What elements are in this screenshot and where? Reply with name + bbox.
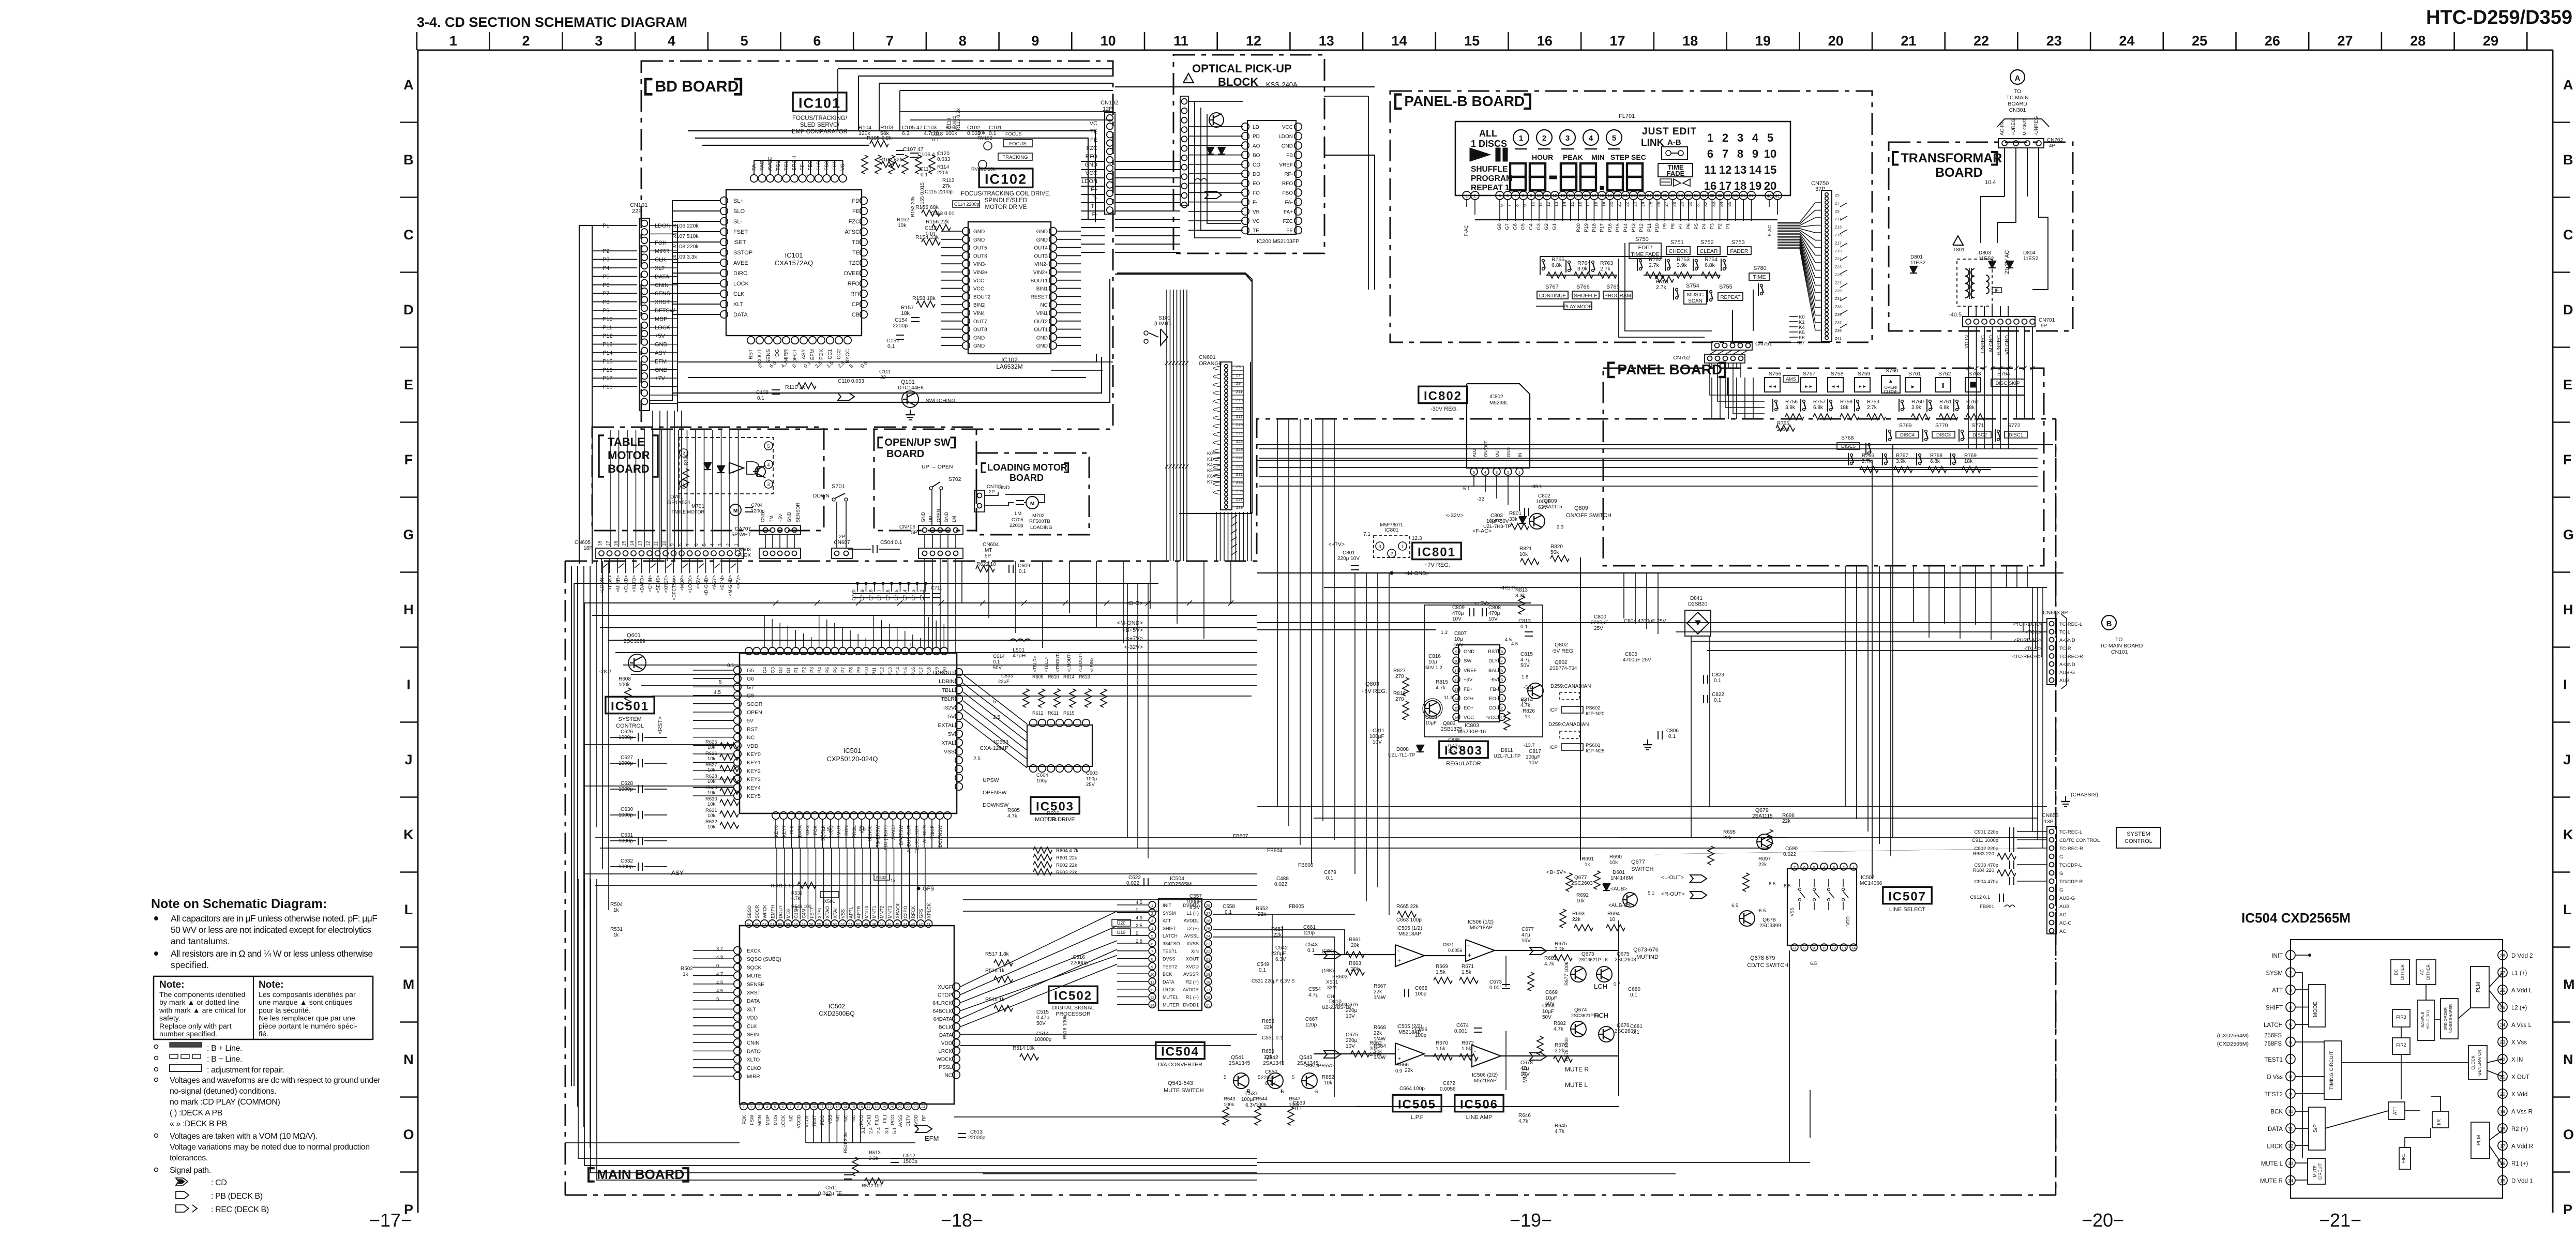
svg-text:2.4: 2.4 bbox=[868, 1127, 873, 1134]
svg-text:8: 8 bbox=[797, 1106, 800, 1109]
svg-text:G6: G6 bbox=[747, 676, 754, 682]
svg-text:CN301: CN301 bbox=[2009, 107, 2026, 113]
svg-text:KEY6: KEY6 bbox=[774, 825, 779, 837]
capacitor row C712-C720 bbox=[853, 594, 862, 598]
svg-text:C674: C674 bbox=[1456, 1023, 1469, 1029]
svg-text:10: 10 bbox=[1454, 659, 1458, 663]
svg-text:AUBUS-OUT: AUBUS-OUT bbox=[907, 825, 912, 853]
svg-text:GTOP: GTOP bbox=[938, 993, 952, 999]
svg-text:C513: C513 bbox=[970, 1129, 983, 1135]
svg-text:C811: C811 bbox=[1373, 728, 1385, 734]
svg-text:GND: GND bbox=[973, 229, 985, 235]
svg-text:45: 45 bbox=[895, 923, 899, 927]
svg-text:EXCK: EXCK bbox=[747, 948, 761, 954]
svg-text:FSET: FSET bbox=[733, 229, 748, 235]
svg-text:3: 3 bbox=[767, 482, 770, 487]
optical block top inner rail bbox=[1188, 101, 1243, 102]
svg-text:<D-G>: <D-G> bbox=[1126, 600, 1143, 607]
transformer T801 windings bbox=[1957, 259, 1992, 306]
svg-text:5V: 5V bbox=[948, 714, 955, 720]
svg-text:3RD ORDER: 3RD ORDER bbox=[2443, 1007, 2448, 1030]
svg-text:P2: P2 bbox=[1718, 223, 1723, 230]
svg-text:10k: 10k bbox=[707, 790, 716, 796]
vertical drops under CN604 bbox=[924, 579, 925, 653]
IC503 label box bbox=[1031, 797, 1079, 813]
svg-text:S751: S751 bbox=[1670, 239, 1684, 246]
svg-text:Replace only with part: Replace only with part bbox=[159, 1022, 232, 1031]
D701 transistor bbox=[755, 466, 765, 477]
svg-text:49: 49 bbox=[864, 923, 868, 927]
svg-text:DISC3: DISC3 bbox=[1936, 432, 1951, 438]
svg-text:Q543: Q543 bbox=[1299, 1054, 1313, 1061]
svg-text:CXD2500BQ: CXD2500BQ bbox=[819, 1010, 854, 1017]
svg-text:0.9: 0.9 bbox=[1395, 1068, 1402, 1074]
svg-text:22μF: 22μF bbox=[998, 679, 1010, 685]
svg-text:C666: C666 bbox=[1415, 1027, 1427, 1033]
svg-text:8: 8 bbox=[1794, 946, 1796, 950]
svg-text:15: 15 bbox=[1454, 706, 1458, 711]
R503 1k bbox=[874, 874, 890, 880]
svg-text:FA+: FA+ bbox=[1284, 209, 1293, 215]
svg-text:59: 59 bbox=[786, 923, 790, 927]
svg-text:CLEAR: CLEAR bbox=[1699, 248, 1718, 254]
svg-text:I: I bbox=[406, 677, 411, 692]
svg-text:DATA: DATA bbox=[2268, 1126, 2283, 1132]
svg-text:<-32V>: <-32V> bbox=[1446, 512, 1464, 519]
svg-text:IC801: IC801 bbox=[1418, 546, 1456, 560]
svg-text:C822: C822 bbox=[1712, 692, 1724, 698]
svg-text:270: 270 bbox=[1395, 674, 1404, 679]
svg-text:Z33: Z33 bbox=[1835, 305, 1842, 309]
svg-text:2.7k: 2.7k bbox=[1649, 262, 1660, 268]
svg-text:DTC144EK: DTC144EK bbox=[898, 385, 924, 391]
wires CN702 down to transformer bbox=[2004, 148, 2005, 197]
svg-text:VREF: VREF bbox=[1464, 668, 1477, 673]
svg-text:Q678: Q678 bbox=[1762, 917, 1776, 923]
IC504 left pin col 1-14 bbox=[1149, 901, 1156, 909]
horizontal rails between IC501 area and audio bbox=[584, 744, 734, 745]
panel wires to CN752 bbox=[1727, 377, 1765, 395]
D701 pins circled 2 1 bbox=[680, 449, 688, 457]
svg-text:22: 22 bbox=[1631, 193, 1636, 198]
svg-text:LINE AMP: LINE AMP bbox=[1466, 1114, 1493, 1121]
svg-text:5: 5 bbox=[1501, 678, 1503, 683]
svg-text:IC803: IC803 bbox=[1465, 722, 1479, 729]
svg-text:<RST>: <RST> bbox=[1500, 585, 1517, 591]
svg-text:AVEE: AVEE bbox=[733, 260, 748, 266]
svg-text:AC-C: AC-C bbox=[2059, 920, 2071, 926]
svg-text:25: 25 bbox=[1206, 926, 1210, 931]
svg-text:22: 22 bbox=[1206, 949, 1210, 954]
svg-text:IC502: IC502 bbox=[1054, 989, 1092, 1003]
svg-text:M5293L: M5293L bbox=[1489, 400, 1509, 406]
svg-text:13: 13 bbox=[638, 541, 643, 546]
svg-text:CO: CO bbox=[1253, 162, 1260, 168]
svg-text:CIRCUIT: CIRCUIT bbox=[2318, 1163, 2323, 1180]
IC803 left pins bbox=[1453, 647, 1460, 655]
svg-text:TD: TD bbox=[852, 239, 860, 246]
svg-text:N: N bbox=[403, 1052, 414, 1067]
svg-text:TC MAIN: TC MAIN bbox=[2006, 95, 2028, 101]
svg-text:LRCK: LRCK bbox=[2267, 1144, 2283, 1150]
svg-text:FB901: FB901 bbox=[1980, 904, 1994, 910]
svg-text:X IN: X IN bbox=[2511, 1057, 2523, 1063]
svg-text:AVDDR: AVDDR bbox=[1183, 987, 1199, 992]
IC503 resistor network R609-R615 bbox=[1023, 689, 1029, 707]
svg-text:FO: FO bbox=[1253, 190, 1260, 196]
svg-text:VD-GND: VD-GND bbox=[2005, 335, 2010, 355]
svg-text:AC: AC bbox=[2420, 969, 2424, 975]
svg-text:S759: S759 bbox=[1858, 371, 1871, 377]
svg-text:TEST1: TEST1 bbox=[2264, 1057, 2283, 1063]
svg-text:6: 6 bbox=[1151, 942, 1153, 946]
svg-text:Q809: Q809 bbox=[1544, 498, 1557, 504]
frame left vertical line bbox=[417, 50, 419, 1213]
svg-text:P5: P5 bbox=[825, 667, 830, 673]
svg-text:10μF: 10μF bbox=[1545, 995, 1557, 1001]
svg-text:Les composants identifiés par: Les composants identifiés par bbox=[259, 991, 356, 999]
svg-text:S757: S757 bbox=[1803, 371, 1816, 377]
svg-text:P19: P19 bbox=[1584, 223, 1589, 232]
svg-text:11: 11 bbox=[1454, 668, 1458, 673]
svg-text:FB605: FB605 bbox=[1289, 904, 1304, 910]
svg-text:P17: P17 bbox=[1600, 223, 1605, 232]
svg-text:PLAY MODE: PLAY MODE bbox=[1564, 304, 1592, 310]
svg-text:6: 6 bbox=[1501, 668, 1503, 673]
svg-text:AVSSR: AVSSR bbox=[1183, 972, 1199, 977]
svg-text:2.2k: 2.2k bbox=[1555, 1048, 1565, 1054]
wire bus from CN101 down-left bbox=[592, 225, 593, 564]
svg-text:33: 33 bbox=[1718, 193, 1722, 198]
svg-text:29: 29 bbox=[2483, 33, 2498, 49]
IC101 left pin column bbox=[720, 197, 728, 204]
IC803 label box bbox=[1439, 741, 1488, 758]
main horizontal bus under connectors bbox=[574, 583, 1158, 584]
svg-text:SLO: SLO bbox=[733, 208, 745, 215]
wires from IC501 right to IC503 bbox=[963, 674, 1027, 724]
vertical drops from rails to IC802 area bbox=[1473, 475, 1474, 486]
svg-text:Z31: Z31 bbox=[1236, 472, 1243, 477]
svg-text:TBLR: TBLR bbox=[941, 696, 955, 702]
svg-text:VIN1: VIN1 bbox=[1036, 311, 1048, 316]
svg-text:LDBOUT: LDBOUT bbox=[932, 670, 955, 676]
extra central rails bbox=[623, 664, 1257, 666]
svg-text:0.033: 0.033 bbox=[937, 157, 950, 162]
svg-text:6: 6 bbox=[1507, 193, 1509, 198]
svg-text:R693: R693 bbox=[1572, 911, 1585, 917]
svg-text:►►: ►► bbox=[1804, 384, 1813, 389]
svg-text:SCOR: SCOR bbox=[747, 701, 763, 707]
svg-text:VSS: VSS bbox=[1789, 908, 1795, 916]
svg-text:R756: R756 bbox=[1785, 399, 1798, 405]
svg-text:DLY: DLY bbox=[1488, 658, 1498, 664]
svg-text:ICP: ICP bbox=[1549, 707, 1558, 713]
svg-text:4: 4 bbox=[1484, 470, 1486, 475]
svg-text:RCH: RCH bbox=[1594, 1011, 1608, 1019]
svg-text:C912 0.1: C912 0.1 bbox=[1970, 895, 1990, 900]
svg-text:GND: GND bbox=[1036, 335, 1048, 341]
wire rails BD right to CN102 bbox=[1081, 161, 1105, 162]
svg-text:OPTICAL PICK-UP: OPTICAL PICK-UP bbox=[1192, 62, 1292, 75]
svg-text:57: 57 bbox=[802, 923, 806, 927]
connector CN705 2P bbox=[974, 490, 985, 512]
IC501 body CXP50120-024Q bbox=[740, 653, 957, 813]
svg-text:►: ► bbox=[1910, 384, 1916, 390]
svg-text:SYSTEM: SYSTEM bbox=[618, 716, 641, 722]
svg-text:53: 53 bbox=[833, 923, 837, 927]
ground symbol near Q101 bbox=[910, 410, 911, 415]
resistor cluster above IC101 (R101-R110,C101-C108) bbox=[862, 155, 868, 174]
svg-text:5: 5 bbox=[1473, 470, 1475, 475]
svg-text:BOARD: BOARD bbox=[2008, 101, 2027, 107]
svg-text:S760: S760 bbox=[1886, 368, 1899, 374]
svg-text:3.7: 3.7 bbox=[716, 946, 723, 952]
svg-text:30: 30 bbox=[1694, 193, 1699, 198]
svg-text:1k: 1k bbox=[1525, 714, 1531, 720]
svg-text:64: 64 bbox=[747, 923, 751, 927]
board label TRANSFORMAR BOARD bbox=[1893, 152, 1899, 165]
svg-text:20: 20 bbox=[1764, 179, 1776, 192]
IC200 left pins bbox=[1242, 123, 1249, 130]
R110 1k resistor bbox=[797, 383, 816, 389]
svg-text:BAL: BAL bbox=[1488, 668, 1498, 673]
svg-text:10k: 10k bbox=[1519, 552, 1528, 557]
svg-text:4.7k: 4.7k bbox=[1518, 1119, 1529, 1124]
svg-text:ISET: ISET bbox=[733, 239, 746, 246]
svg-text:JUST EDIT: JUST EDIT bbox=[1642, 126, 1697, 137]
svg-text:DATA: DATA bbox=[1163, 979, 1174, 985]
svg-text:D259:CANADIAN: D259:CANADIAN bbox=[1548, 722, 1589, 728]
svg-text:<M-GND>: <M-GND> bbox=[728, 575, 733, 596]
svg-text:4: 4 bbox=[1151, 926, 1153, 931]
svg-text:C117: C117 bbox=[920, 167, 932, 172]
svg-text:F-AC: F-AC bbox=[1767, 225, 1773, 236]
svg-text:61: 61 bbox=[770, 923, 774, 927]
svg-text:4.7μ: 4.7μ bbox=[1520, 657, 1531, 663]
svg-text:<M-GND>: <M-GND> bbox=[1117, 620, 1143, 626]
svg-text:20: 20 bbox=[1206, 964, 1210, 969]
svg-text:22k: 22k bbox=[1405, 1068, 1413, 1074]
svg-text:Z19: Z19 bbox=[1835, 249, 1842, 253]
svg-text:FIR3: FIR3 bbox=[2396, 1015, 2406, 1020]
svg-text:19: 19 bbox=[2500, 1109, 2506, 1115]
svg-text:FB-: FB- bbox=[1490, 687, 1498, 692]
svg-text:( ) :DECK A PB: ( ) :DECK A PB bbox=[170, 1109, 222, 1117]
svg-text:REGULATOR: REGULATOR bbox=[1446, 761, 1481, 767]
board outline TRANSFORMAR BOARD bbox=[1889, 142, 2073, 331]
svg-text:R504: R504 bbox=[610, 902, 623, 908]
svg-text:RFO: RFO bbox=[848, 281, 860, 287]
CXD2565M ATT block bbox=[2388, 1102, 2405, 1120]
svg-text:D841: D841 bbox=[1690, 596, 1703, 601]
svg-text:26: 26 bbox=[1663, 193, 1667, 198]
wires loading motor bbox=[985, 492, 998, 495]
svg-text:ASY: ASY bbox=[671, 869, 684, 877]
connector CN607 2P bbox=[832, 548, 852, 558]
svg-text:10k: 10k bbox=[707, 779, 716, 784]
svg-text:0.022: 0.022 bbox=[1783, 852, 1796, 857]
svg-text:PROGRAM: PROGRAM bbox=[1604, 293, 1631, 299]
svg-text:‖: ‖ bbox=[1941, 382, 1945, 389]
svg-text:SLED SERVO/: SLED SERVO/ bbox=[800, 122, 840, 128]
svg-text:18: 18 bbox=[597, 541, 602, 546]
svg-text:R760: R760 bbox=[1911, 399, 1924, 405]
svg-text:FA-: FA- bbox=[1285, 200, 1293, 206]
svg-text:: PB (DECK B): : PB (DECK B) bbox=[211, 1192, 263, 1201]
svg-text:P15: P15 bbox=[1615, 223, 1621, 232]
svg-text:K6: K6 bbox=[1207, 474, 1213, 479]
photo diodes in optical block bbox=[1207, 147, 1214, 154]
svg-text:CN653 8P: CN653 8P bbox=[2043, 610, 2068, 616]
board outline TABLE MOTOR BOARD bbox=[592, 427, 824, 531]
svg-text:7: 7 bbox=[1501, 659, 1503, 663]
svg-text:12: 12 bbox=[1454, 678, 1458, 683]
svg-text:P6: P6 bbox=[602, 282, 609, 289]
svg-text:R612: R612 bbox=[1032, 711, 1044, 716]
svg-text:Q601: Q601 bbox=[627, 632, 641, 639]
svg-text:47μ: 47μ bbox=[1522, 932, 1530, 938]
svg-text:MDP: MDP bbox=[765, 1115, 770, 1125]
svg-text:-: - bbox=[1474, 1047, 1476, 1054]
svg-text:K7: K7 bbox=[1207, 479, 1213, 485]
svg-text:STEP: STEP bbox=[1610, 153, 1630, 161]
svg-text:13: 13 bbox=[1454, 687, 1458, 692]
svg-text:1N4148M: 1N4148M bbox=[1610, 875, 1633, 881]
svg-text:C106 4.7: C106 4.7 bbox=[917, 152, 940, 158]
svg-text:<F-AC>: <F-AC> bbox=[1472, 528, 1492, 534]
svg-text:22000p: 22000p bbox=[968, 1135, 986, 1141]
svg-text:FE: FE bbox=[852, 208, 860, 215]
AMS box bbox=[1783, 375, 1799, 382]
svg-text:P4: P4 bbox=[817, 667, 822, 673]
svg-text:10V: 10V bbox=[1452, 616, 1462, 622]
svg-text:C712: C712 bbox=[920, 590, 925, 601]
power rails right area bbox=[1257, 444, 2053, 445]
svg-text:+5V: +5V bbox=[778, 514, 783, 522]
svg-text:ORANGE: ORANGE bbox=[1199, 360, 1223, 367]
svg-text:(CHASSIS): (CHASSIS) bbox=[2071, 792, 2098, 798]
svg-text:<TC-L>: <TC-L> bbox=[2025, 630, 2042, 636]
svg-text:◄◄: ◄◄ bbox=[1831, 384, 1840, 389]
connector CN702 4P bbox=[1998, 139, 2044, 148]
svg-text:XTAO: XTAO bbox=[825, 906, 830, 918]
svg-text:DA707: DA707 bbox=[735, 526, 751, 532]
svg-text:S762: S762 bbox=[1938, 371, 1951, 377]
svg-text:R695: R695 bbox=[1723, 829, 1736, 835]
IC802 bottom pins bbox=[1470, 468, 1478, 475]
svg-text:LDON: LDON bbox=[1278, 134, 1293, 140]
svg-text:C669: C669 bbox=[1545, 990, 1558, 995]
svg-text:: REC (DECK B): : REC (DECK B) bbox=[211, 1205, 269, 1214]
svg-text:M: M bbox=[2563, 977, 2575, 992]
svg-text:5P: 5P bbox=[911, 530, 918, 536]
svg-text:<+7V>: <+7V> bbox=[1126, 636, 1143, 642]
svg-text:RST: RST bbox=[748, 349, 754, 359]
svg-text:R102 82k: R102 82k bbox=[879, 157, 903, 163]
svg-text:R518 100k: R518 100k bbox=[1062, 1016, 1068, 1039]
svg-text:IC506 (2/2): IC506 (2/2) bbox=[1472, 1072, 1498, 1078]
svg-text:F+: F+ bbox=[1091, 187, 1097, 193]
svg-text:16: 16 bbox=[613, 541, 619, 546]
svg-text:55: 55 bbox=[817, 923, 821, 927]
key resistors R765 R764 R763 bbox=[1542, 260, 1545, 262]
svg-text:19: 19 bbox=[1749, 179, 1761, 192]
svg-text:14: 14 bbox=[1749, 163, 1762, 176]
CXD2565M left pins bbox=[2286, 950, 2295, 960]
CXD2565M FIR3 block bbox=[2392, 1009, 2410, 1027]
svg-text:OPENSW: OPENSW bbox=[983, 790, 1007, 796]
svg-text:CD/TC CONTROL: CD/TC CONTROL bbox=[2059, 838, 2100, 843]
R622 10 and C609 0.1 bbox=[976, 566, 995, 572]
svg-text:5: 5 bbox=[1767, 131, 1773, 144]
svg-text:FB+: FB+ bbox=[1464, 687, 1473, 692]
IC507 bottom pins bbox=[1791, 944, 1798, 951]
svg-text:R652: R652 bbox=[1256, 906, 1268, 912]
svg-text:10V: 10V bbox=[1346, 1044, 1355, 1049]
svg-text:<LBOUT>: <LBOUT> bbox=[1078, 653, 1083, 672]
svg-text:C543: C543 bbox=[1305, 942, 1318, 948]
svg-text:BOUT1: BOUT1 bbox=[1031, 278, 1048, 284]
svg-text:R605: R605 bbox=[1007, 808, 1020, 813]
svg-text:3: 3 bbox=[1378, 544, 1381, 549]
svg-text:IC507: IC507 bbox=[1888, 890, 1926, 904]
svg-text:R611: R611 bbox=[1048, 711, 1059, 716]
wire rails y1108-1140 extension right bbox=[1531, 572, 2063, 573]
svg-text:DATA: DATA bbox=[655, 274, 669, 280]
svg-text:LRCK: LRCK bbox=[938, 1049, 952, 1054]
svg-text:22: 22 bbox=[1974, 33, 1989, 49]
svg-text:VSS: VSS bbox=[840, 909, 846, 918]
svg-text:3.9k: 3.9k bbox=[1677, 262, 1688, 268]
svg-text:number specified.: number specified. bbox=[159, 1030, 217, 1038]
svg-text:M5218AP: M5218AP bbox=[1470, 925, 1493, 931]
svg-text:A: A bbox=[403, 77, 414, 93]
svg-text:VC: VC bbox=[1090, 120, 1097, 127]
svg-text:XUGF: XUGF bbox=[938, 985, 952, 990]
svg-text:C488: C488 bbox=[1276, 876, 1289, 882]
svg-text:C911 1000p: C911 1000p bbox=[1972, 838, 1998, 843]
svg-text:16: 16 bbox=[1704, 179, 1716, 192]
svg-text:R108 220k: R108 220k bbox=[672, 244, 699, 250]
svg-text:Z25: Z25 bbox=[1236, 447, 1243, 452]
legend CD signal arrow bbox=[176, 1178, 188, 1185]
svg-text:3: 3 bbox=[758, 1106, 760, 1109]
svg-text:C554: C554 bbox=[1308, 987, 1321, 992]
svg-text:54: 54 bbox=[825, 923, 829, 927]
svg-text:2.7k: 2.7k bbox=[1867, 405, 1877, 411]
svg-text:TC/CDP-R: TC/CDP-R bbox=[2059, 879, 2083, 885]
verticals between audio opamps bbox=[1505, 956, 1507, 987]
hatch ticks on CN601 harness bbox=[1231, 515, 1237, 519]
svg-text:CLK: CLK bbox=[733, 291, 745, 297]
svg-text:3.1: 3.1 bbox=[884, 1127, 889, 1134]
wires IC504 right to IC505 inputs bbox=[1213, 914, 1355, 915]
board label MAIN BOARD bbox=[589, 1168, 595, 1181]
svg-text:E: E bbox=[404, 377, 413, 392]
svg-text:EO+: EO+ bbox=[1464, 705, 1474, 711]
svg-text:Z9: Z9 bbox=[1835, 209, 1840, 214]
svg-text:IC506: IC506 bbox=[1460, 1098, 1498, 1112]
svg-text:R759: R759 bbox=[1867, 399, 1879, 405]
svg-text:18: 18 bbox=[1600, 193, 1604, 198]
svg-text:G8: G8 bbox=[1497, 223, 1502, 230]
svg-text:R153 33k: R153 33k bbox=[910, 196, 916, 217]
svg-text:S750: S750 bbox=[1635, 236, 1649, 243]
svg-text:21: 21 bbox=[1901, 33, 1916, 49]
svg-text:S768: S768 bbox=[1841, 435, 1854, 441]
svg-text:C807: C807 bbox=[1454, 631, 1467, 637]
svg-text:OPEN: OPEN bbox=[747, 709, 762, 716]
